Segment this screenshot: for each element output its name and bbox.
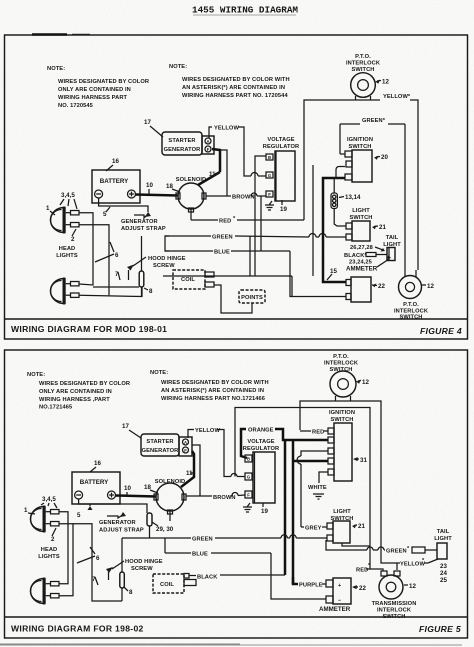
svg-text:GREEN*: GREEN*: [362, 118, 386, 124]
svg-text:HEAD: HEAD: [41, 547, 58, 553]
svg-text:WIRING HARNESS PART NO.1721466: WIRING HARNESS PART NO.1721466: [161, 396, 265, 402]
ammeter P1: [346, 277, 385, 302]
svg-text:WIRING HARNESS ,PART: WIRING HARNESS ,PART: [39, 397, 110, 403]
wire 6 label: [95, 242, 119, 262]
svg-text:21: 21: [358, 523, 365, 530]
note 3: [27, 372, 130, 411]
svg-text:WIRES DESIGNATED BY COLOR WITH: WIRES DESIGNATED BY COLOR WITH: [182, 77, 290, 83]
svg-text:−: −: [338, 598, 341, 604]
wire 13,14 connector links: [334, 179, 346, 226]
thick harness drops P2: [285, 441, 293, 584]
P.T.O. interlock switch P2: [324, 354, 369, 401]
wire RED P2 (to ignition): [300, 430, 328, 436]
svg-text:26,27,28: 26,27,28: [350, 245, 373, 251]
panel 1 border: [5, 35, 468, 339]
head light bus P2: [59, 512, 122, 601]
panel 2 title: [11, 624, 461, 635]
svg-text:WIRING DIAGRAM FOR MOD 198-01: WIRING DIAGRAM FOR MOD 198-01: [11, 324, 167, 334]
battery P1: [92, 158, 140, 203]
head light 2 P2: [31, 578, 60, 605]
svg-text:P.T.O.: P.T.O.: [403, 302, 419, 308]
svg-text:24: 24: [440, 570, 447, 577]
svg-text:GENERATOR: GENERATOR: [142, 448, 179, 454]
svg-text:SCREW: SCREW: [153, 263, 175, 269]
svg-text:+: +: [338, 583, 341, 589]
wire YELLOW (starter gen A to regulator G): [209, 126, 266, 177]
svg-text:NOTE:: NOTE:: [47, 66, 65, 72]
svg-text:FIGURE 5: FIGURE 5: [419, 624, 461, 634]
svg-text:SWITCH: SWITCH: [382, 614, 405, 620]
svg-text:SWITCH: SWITCH: [348, 144, 371, 150]
svg-text:NOTE:: NOTE:: [150, 370, 168, 376]
svg-text:BLUE: BLUE: [192, 552, 208, 558]
svg-text:15: 15: [330, 268, 337, 275]
wire 6 label P2: [77, 547, 100, 563]
svg-text:2: 2: [71, 236, 75, 243]
svg-text:19: 19: [280, 206, 287, 213]
svg-text:SCREW: SCREW: [131, 566, 153, 572]
wire BLACK P2: [189, 575, 285, 581]
wire 11 P2: [181, 451, 194, 487]
svg-text:16: 16: [94, 460, 101, 467]
page title: [192, 5, 298, 16]
svg-text:PURPLE: PURPLE: [299, 583, 323, 589]
svg-text:BATTERY: BATTERY: [100, 178, 129, 185]
svg-text:B: B: [268, 155, 271, 160]
wire BROWN: [206, 193, 266, 201]
wire ignition A terminal to grey: [297, 451, 328, 527]
svg-text:AN ASTERISK(*) ARE CONTAINED I: AN ASTERISK(*) ARE CONTAINED IN: [161, 388, 264, 394]
svg-text:1455 WIRING DIAGRAM: 1455 WIRING DIAGRAM: [192, 5, 298, 16]
svg-text:GREY: GREY: [305, 526, 322, 532]
svg-text:3,4,5: 3,4,5: [61, 192, 75, 199]
svg-text:INTERLOCK: INTERLOCK: [377, 608, 412, 614]
svg-text:WIRES DESIGNATED BY COLOR WITH: WIRES DESIGNATED BY COLOR WITH: [161, 380, 269, 386]
svg-text:AMMETER: AMMETER: [346, 266, 378, 273]
light switch P2: [327, 509, 365, 543]
svg-text:GENERATOR: GENERATOR: [164, 147, 201, 153]
P.T.O. interlock switch (bottom right): [394, 270, 434, 321]
head light 1 P2: [24, 496, 59, 543]
ground below voltage regulator P2: [243, 503, 268, 515]
tail light P2: [434, 529, 452, 584]
svg-text:YELLOW*: YELLOW*: [383, 94, 411, 100]
voltage regulator P2: [243, 439, 279, 503]
svg-text:NOTE:: NOTE:: [169, 64, 187, 70]
svg-text:25: 25: [440, 577, 447, 584]
wire battery neg to strap: [99, 198, 148, 218]
svg-text:BATTERY: BATTERY: [80, 479, 109, 486]
head lights label P2: [38, 547, 60, 560]
svg-text:BLACK*: BLACK*: [344, 253, 367, 259]
wire regulator B feed: [250, 156, 266, 276]
svg-text:ADJUST STRAP: ADJUST STRAP: [121, 226, 166, 232]
ignition switch P1: [345, 137, 388, 182]
svg-text:ADJUST STRAP: ADJUST STRAP: [99, 528, 144, 534]
svg-text:IGNITION: IGNITION: [347, 137, 373, 143]
transmission interlock switch: [372, 571, 417, 620]
svg-text:LIGHT: LIGHT: [352, 208, 370, 214]
harness outer loop (top right): [304, 100, 418, 273]
svg-text:G: G: [247, 475, 250, 480]
hood hinge screw P2: [92, 538, 163, 601]
svg-text:VOLTAGE: VOLTAGE: [267, 137, 294, 143]
wire label YELLOW* (harness top): [383, 94, 411, 100]
svg-text:ONLY ARE CONTAINED IN: ONLY ARE CONTAINED IN: [58, 87, 131, 93]
wire ignition I terminal: [313, 165, 345, 276]
svg-text:GENERATOR: GENERATOR: [99, 520, 136, 526]
svg-text:RED: RED: [312, 430, 324, 436]
P.T.O. interlock switch (top): [346, 54, 389, 101]
svg-text:LIGHT: LIGHT: [434, 536, 452, 542]
wire 10 (battery to solenoid): [136, 182, 179, 196]
starter generator P2: [122, 423, 192, 456]
svg-text:10: 10: [124, 485, 131, 492]
generator adjust strap: [121, 212, 166, 232]
wire BROWN P2: [186, 445, 245, 501]
svg-text:F: F: [247, 493, 250, 498]
svg-text:FIGURE 4: FIGURE 4: [420, 326, 462, 336]
lower horizontal run: [163, 276, 292, 297]
svg-text:G: G: [268, 173, 271, 178]
note 2 (asterisk): [169, 64, 290, 99]
solenoid P2: [144, 479, 186, 514]
svg-text:WIRES DESIGNATED BY COLOR: WIRES DESIGNATED BY COLOR: [58, 79, 149, 85]
wire GREEN P2: [122, 535, 327, 543]
svg-text:8: 8: [129, 589, 133, 596]
svg-text:YELLOW: YELLOW: [195, 428, 220, 434]
svg-text:LIGHTS: LIGHTS: [38, 554, 60, 560]
svg-text:AN ASTERISK(*) ARE CONTAINED I: AN ASTERISK(*) ARE CONTAINED IN: [182, 85, 285, 91]
svg-text:13,14: 13,14: [345, 194, 361, 201]
svg-text:RED: RED: [219, 219, 231, 225]
wire PURPLE: [293, 577, 326, 589]
svg-text:GENERATOR: GENERATOR: [121, 219, 158, 225]
svg-text:16: 16: [112, 158, 119, 165]
svg-text:6: 6: [96, 555, 100, 562]
svg-text:REGULATOR: REGULATOR: [243, 446, 279, 452]
wire label GREEN*: [362, 118, 386, 124]
wire GREEN* to tail light: [326, 540, 437, 555]
svg-text:1: 1: [46, 205, 50, 212]
harness loop P2: [235, 401, 397, 563]
svg-text:F: F: [207, 147, 210, 152]
wire coil to points: [214, 285, 252, 313]
coil P1: [173, 270, 214, 289]
connector 29,30: [147, 511, 174, 538]
svg-text:WIRING DIAGRAM FOR 198-02: WIRING DIAGRAM FOR 198-02: [11, 624, 144, 634]
svg-text:IGNITION: IGNITION: [329, 410, 355, 416]
svg-text:TAIL: TAIL: [437, 529, 450, 535]
svg-text:ONLY ARE CONTAINED IN: ONLY ARE CONTAINED IN: [39, 389, 112, 395]
wire RED*: [191, 209, 304, 225]
voltage regulator P1: [263, 137, 299, 201]
svg-text:12: 12: [427, 283, 434, 290]
svg-text:12: 12: [409, 583, 416, 590]
note 1 (color only): [47, 66, 149, 109]
hood hinge screw P1: [115, 236, 186, 297]
svg-text:TAIL: TAIL: [386, 235, 399, 241]
svg-text:17: 17: [144, 119, 151, 126]
svg-text:SWITCH: SWITCH: [330, 417, 353, 423]
svg-text:P.T.O.: P.T.O.: [333, 354, 349, 360]
svg-text:LIGHT: LIGHT: [333, 509, 351, 515]
svg-text:20: 20: [381, 154, 388, 161]
wire 10 P2: [116, 485, 157, 497]
svg-text:ORANGE: ORANGE: [248, 428, 274, 434]
svg-text:WIRING HARNESS PART: WIRING HARNESS PART: [58, 95, 128, 101]
svg-text:22: 22: [359, 585, 366, 592]
svg-text:WIRES DESIGNATED BY COLOR: WIRES DESIGNATED BY COLOR: [39, 381, 130, 387]
svg-text:BLACK: BLACK: [197, 575, 218, 581]
wire BLUE P2: [165, 538, 326, 599]
svg-text:WIRING HARNESS PART NO. 172054: WIRING HARNESS PART NO. 1720544: [182, 93, 288, 99]
tail light P1: [344, 235, 401, 273]
wire F tap to brown: [220, 150, 227, 196]
svg-text:TRANSMISSION: TRANSMISSION: [372, 601, 417, 607]
panel 2 border: [5, 350, 468, 638]
head light 1: [46, 192, 79, 243]
svg-text:19: 19: [261, 508, 268, 515]
svg-text:INTERLOCK: INTERLOCK: [346, 61, 381, 67]
svg-text:BROWN: BROWN: [213, 495, 236, 501]
svg-text:21: 21: [379, 224, 386, 231]
svg-text:31: 31: [360, 457, 367, 464]
head light bus wires: [79, 213, 142, 297]
svg-text:1: 1: [24, 507, 28, 514]
wire ORANGE P2: [241, 428, 328, 459]
svg-text:STARTER: STARTER: [146, 439, 173, 445]
svg-text:17: 17: [122, 423, 129, 430]
svg-text:2: 2: [51, 536, 55, 543]
svg-text:SWITCH: SWITCH: [349, 215, 372, 221]
svg-text:NO.1721465: NO.1721465: [39, 405, 72, 411]
svg-text:F: F: [268, 192, 271, 197]
generator adjust strap P2: [99, 512, 144, 534]
harness inner loop around ignition: [340, 124, 405, 154]
points P1: [239, 290, 265, 303]
svg-text:REGULATOR: REGULATOR: [263, 144, 299, 150]
solenoid P1: [166, 177, 206, 212]
wire battery neg P2: [77, 499, 147, 519]
svg-text:6: 6: [115, 252, 119, 259]
svg-text:12: 12: [362, 379, 369, 386]
wire YELLOW P2: [188, 428, 245, 477]
head lights label: [56, 246, 78, 259]
ground below voltage regulator P1: [265, 200, 287, 213]
svg-text:NOTE:: NOTE:: [27, 372, 45, 378]
battery P2: [72, 460, 120, 504]
svg-text:3,4,5: 3,4,5: [42, 496, 56, 503]
svg-text:STARTER: STARTER: [168, 138, 195, 144]
svg-text:SWITCH: SWITCH: [399, 315, 422, 321]
starter generator P1: [144, 119, 214, 155]
svg-text:GREEN: GREEN: [386, 549, 407, 555]
svg-text:POINTS: POINTS: [241, 295, 263, 301]
wire GREY: [301, 526, 327, 532]
svg-text:SOLENOID: SOLENOID: [155, 479, 186, 485]
svg-text:YELLOW: YELLOW: [214, 126, 239, 132]
wire 11 (F terminal to solenoid, thick): [212, 149, 220, 172]
svg-text:COIL: COIL: [160, 582, 174, 588]
svg-text:AMMETER: AMMETER: [319, 606, 351, 613]
ignition switch P2: [328, 410, 367, 481]
svg-text:HEAD: HEAD: [59, 246, 76, 252]
svg-text:WHITE: WHITE: [308, 485, 327, 491]
svg-text:A: A: [184, 440, 187, 445]
svg-text:B: B: [247, 457, 250, 462]
svg-text:NO. 1720545: NO. 1720545: [58, 103, 93, 109]
svg-text:BLUE: BLUE: [214, 250, 230, 256]
wire WHITE with ground: [308, 472, 328, 499]
coil P2: [153, 574, 196, 594]
svg-text:10: 10: [146, 182, 153, 189]
note 4: [150, 370, 269, 402]
wire RED* P2: [342, 543, 383, 574]
svg-text:F: F: [184, 448, 187, 453]
wire 15 (thick feed from ignition B to ammeter): [323, 178, 346, 282]
light switch P1: [346, 208, 386, 241]
svg-text:GREEN: GREEN: [212, 235, 233, 241]
svg-text:INTERLOCK: INTERLOCK: [324, 361, 359, 367]
svg-text:COIL: COIL: [181, 277, 195, 283]
head light 2: [51, 278, 80, 305]
svg-text:A: A: [206, 139, 209, 144]
wire 11 (solenoid up): [198, 171, 220, 185]
svg-text:HOOD HINGE: HOOD HINGE: [148, 256, 186, 262]
svg-text:LIGHTS: LIGHTS: [56, 253, 78, 259]
svg-text:29, 30: 29, 30: [156, 526, 174, 533]
connector 13,14: [331, 193, 361, 209]
wire YELLOW* P2: [397, 558, 438, 570]
svg-text:12: 12: [382, 79, 389, 86]
svg-text:HOOD HINGE: HOOD HINGE: [125, 559, 163, 565]
panel 1 title: [11, 324, 462, 336]
wire GREEN: [165, 234, 346, 252]
svg-text:8: 8: [149, 288, 153, 295]
svg-text:22: 22: [378, 283, 385, 290]
svg-text:GREEN: GREEN: [192, 537, 213, 543]
svg-text:23: 23: [440, 563, 447, 570]
svg-text:11: 11: [209, 171, 216, 178]
wire BLUE: [165, 250, 346, 297]
wire ignition S terminal: [340, 153, 345, 155]
svg-text:P.T.O.: P.T.O.: [355, 54, 371, 60]
wire ignition Y terminal (thick): [293, 460, 328, 463]
svg-text:5: 5: [77, 512, 81, 519]
svg-text:VOLTAGE: VOLTAGE: [247, 439, 274, 445]
ammeter P2: [319, 578, 366, 613]
